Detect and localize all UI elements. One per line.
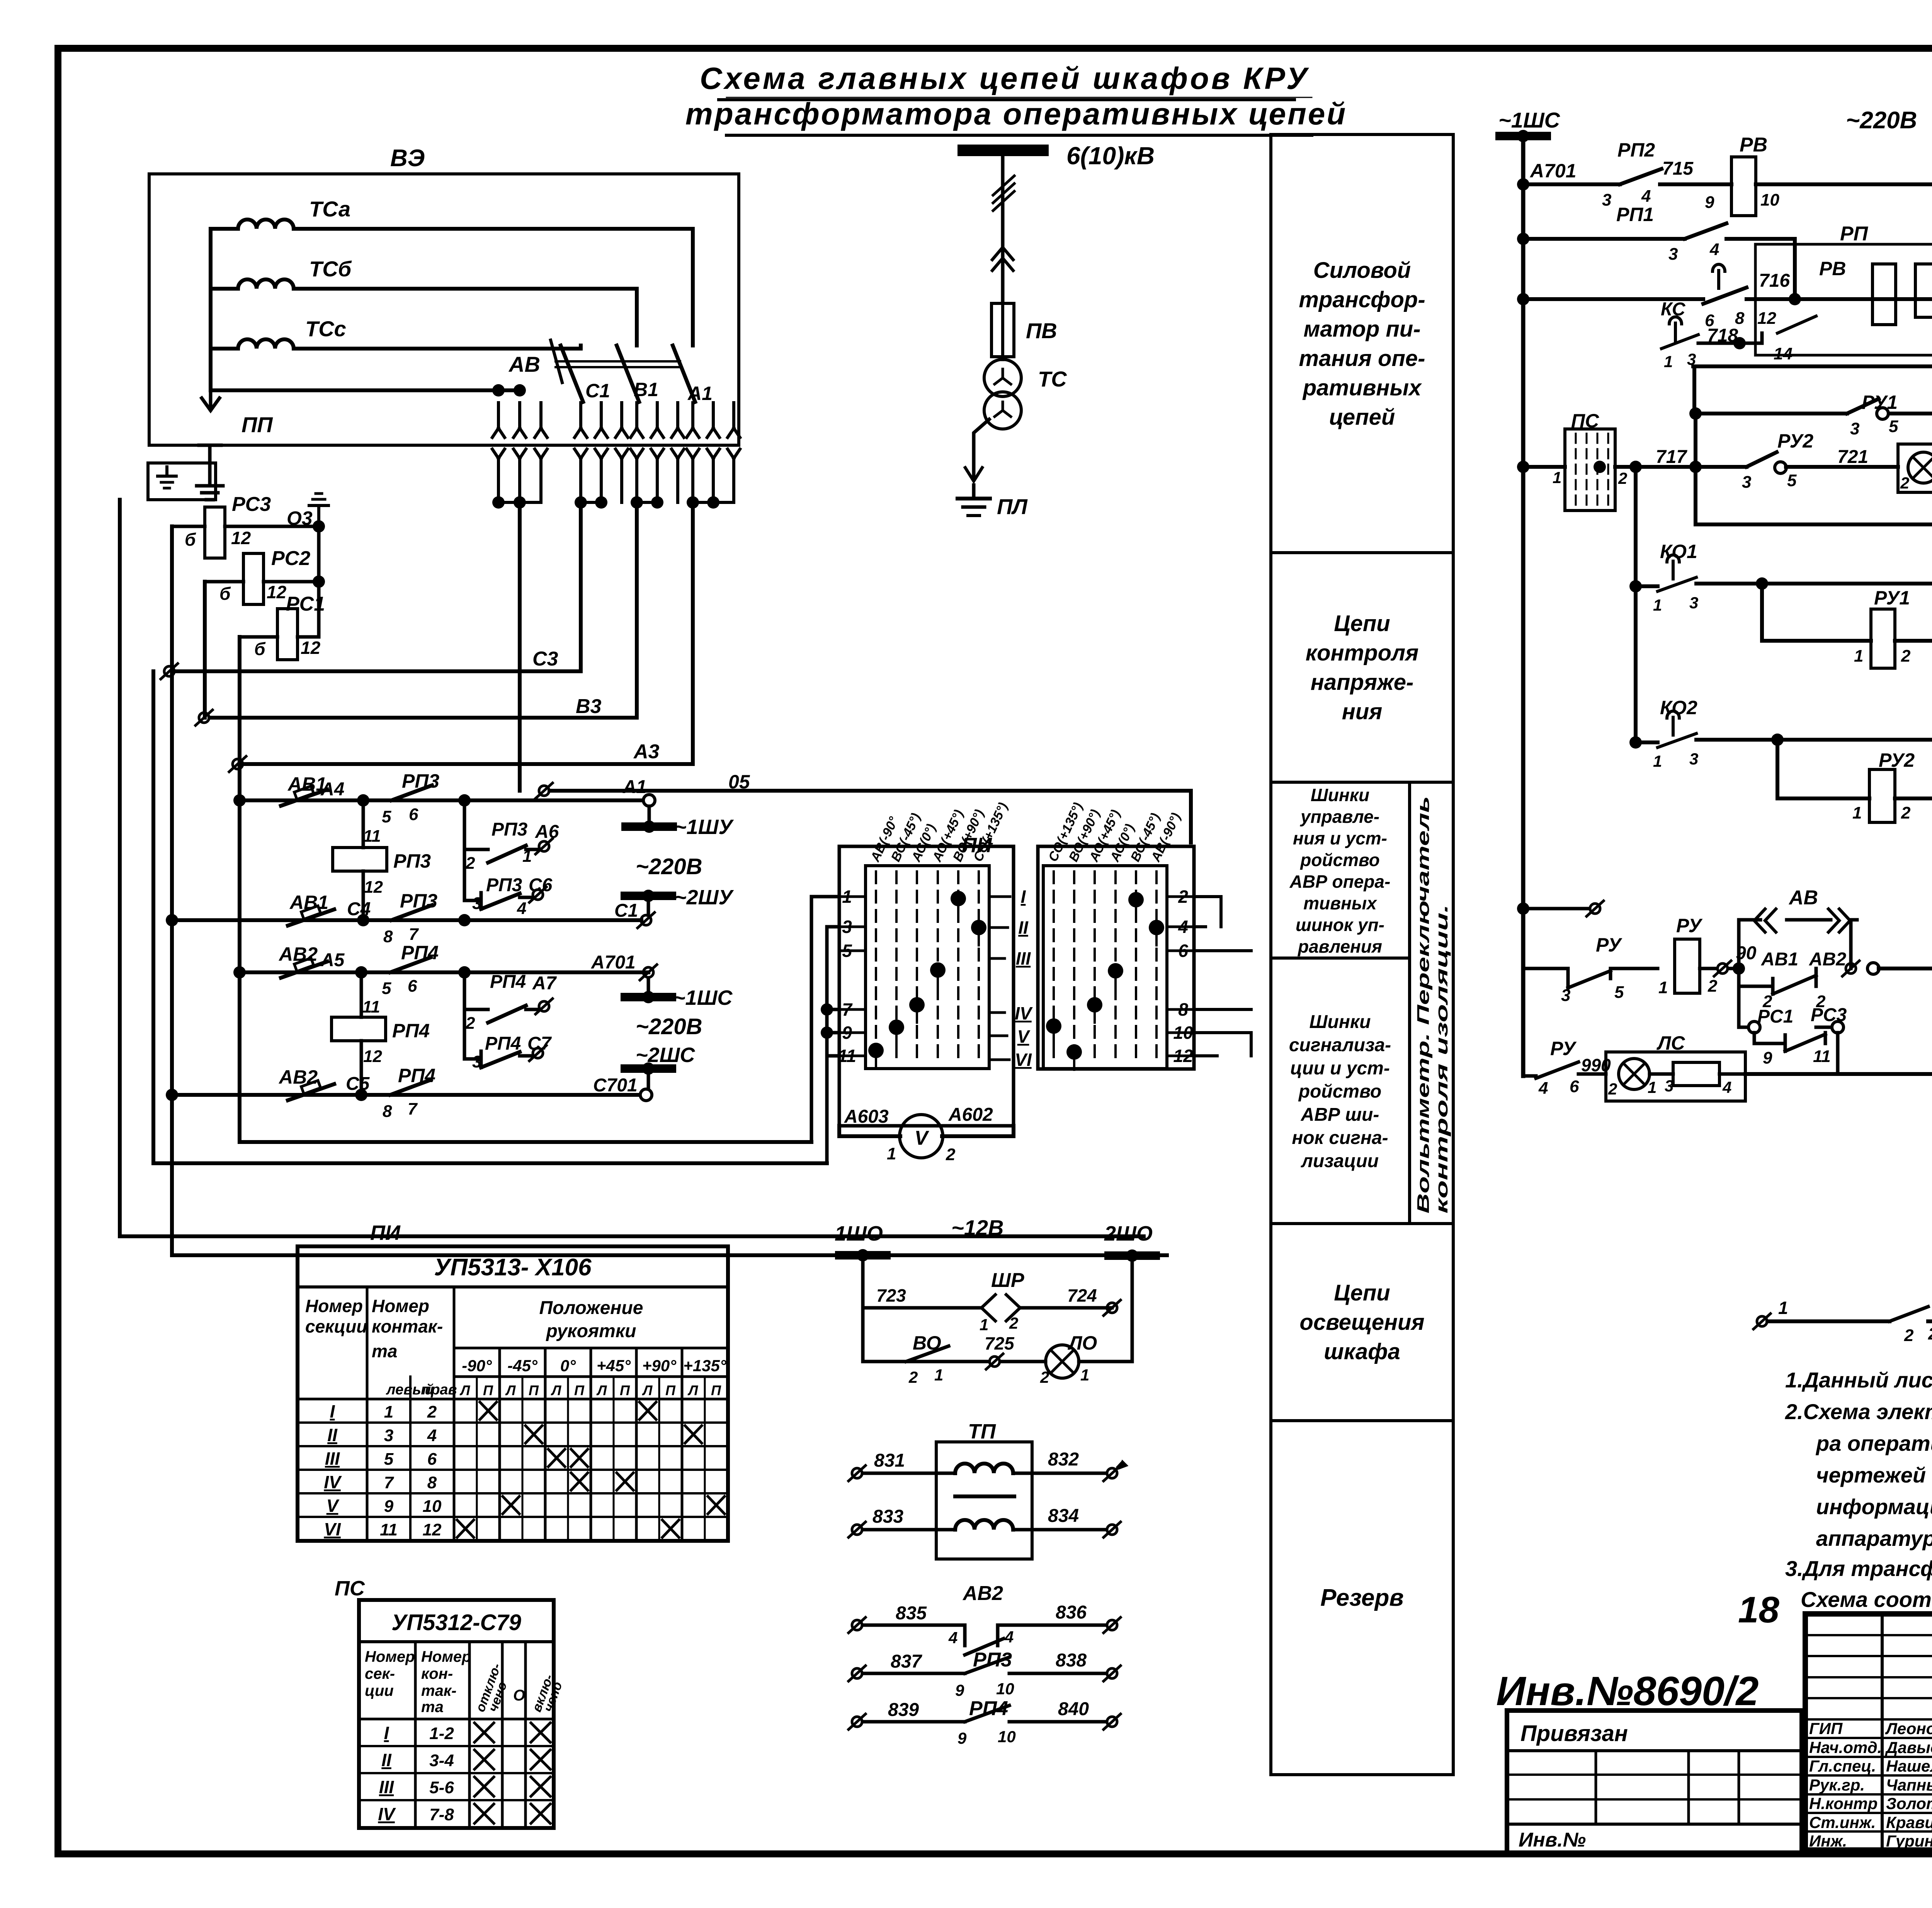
svg-text:Н.контр: Н.контр bbox=[1809, 1794, 1878, 1813]
svg-text:IV: IV bbox=[378, 1804, 396, 1824]
svg-text:Инв.№: Инв.№ bbox=[1519, 1829, 1586, 1851]
svg-text:1: 1 bbox=[1852, 803, 1862, 822]
svg-text:IV: IV bbox=[324, 1472, 342, 1492]
svg-text:Инв.№8690/2: Инв.№8690/2 bbox=[1496, 1668, 1759, 1714]
PI matrix right bbox=[1043, 866, 1167, 1069]
svg-text:Золотарева: Золотарева bbox=[1886, 1794, 1932, 1813]
svg-text:1: 1 bbox=[1648, 1078, 1656, 1096]
svg-text:7-8: 7-8 bbox=[429, 1805, 454, 1824]
node row1 left bbox=[233, 794, 246, 807]
svg-text:П: П bbox=[620, 1382, 630, 1398]
svg-text:Номер: Номер bbox=[305, 1296, 363, 1316]
svg-text:3: 3 bbox=[1602, 191, 1611, 209]
svg-text:1: 1 bbox=[1653, 596, 1662, 614]
svg-text:2: 2 bbox=[1708, 977, 1718, 996]
svg-text:напряже-: напряже- bbox=[1311, 670, 1414, 695]
svg-text:05: 05 bbox=[728, 771, 750, 793]
svg-text:ПЛ: ПЛ bbox=[997, 494, 1028, 519]
svg-text:723: 723 bbox=[876, 1285, 906, 1305]
node row2 mid bbox=[458, 914, 471, 926]
node row2 left bbox=[166, 914, 178, 926]
svg-text:7: 7 bbox=[408, 1100, 418, 1118]
svg-text:РП2: РП2 bbox=[1617, 139, 1655, 161]
svg-text:3: 3 bbox=[1742, 473, 1751, 492]
svg-text:Л: Л bbox=[505, 1382, 516, 1398]
svg-text:сигнализа-: сигнализа- bbox=[1289, 1035, 1391, 1055]
svg-text:4: 4 bbox=[1709, 240, 1719, 259]
svg-text:724: 724 bbox=[1067, 1285, 1097, 1305]
svg-text:7: 7 bbox=[384, 1473, 395, 1492]
svg-text:+45°: +45° bbox=[597, 1357, 631, 1375]
svg-text:ПП: ПП bbox=[241, 412, 273, 437]
svg-text:-45°: -45° bbox=[507, 1357, 538, 1375]
svg-text:8: 8 bbox=[383, 1102, 392, 1121]
svg-text:цепей: цепей bbox=[1329, 405, 1395, 430]
svg-text:12: 12 bbox=[423, 1520, 442, 1539]
contact RU1 + 720 + LS1 row bbox=[1689, 407, 1702, 420]
svg-text:РП: РП bbox=[1840, 223, 1869, 245]
svg-text:П: П bbox=[483, 1382, 493, 1398]
svg-text:А5: А5 bbox=[320, 950, 345, 970]
svg-text:АВ2: АВ2 bbox=[1809, 949, 1846, 970]
coil RP3 bbox=[362, 800, 365, 848]
svg-text:717: 717 bbox=[1656, 447, 1687, 467]
wire left bus vertical bbox=[1521, 140, 1526, 1076]
svg-text:4: 4 bbox=[1004, 1628, 1014, 1646]
svg-text:2: 2 bbox=[1608, 1080, 1617, 1098]
svg-text:С1: С1 bbox=[585, 380, 610, 402]
svg-text:РВ: РВ bbox=[1740, 134, 1767, 156]
svg-text:управле-: управле- bbox=[1300, 807, 1379, 827]
svg-text:РП3: РП3 bbox=[486, 875, 522, 895]
svg-text:II: II bbox=[1018, 917, 1029, 938]
svg-text:Л: Л bbox=[687, 1382, 699, 1398]
svg-text:ративных: ративных bbox=[1302, 375, 1422, 400]
svg-text:1: 1 bbox=[1080, 1366, 1089, 1384]
svg-text:IV: IV bbox=[1015, 1003, 1033, 1023]
svg-text:~1ШС: ~1ШС bbox=[1498, 108, 1561, 132]
svg-text:11: 11 bbox=[363, 827, 381, 846]
svg-text:~220В: ~220В bbox=[636, 854, 702, 879]
svg-text:Нашельский: Нашельский bbox=[1886, 1757, 1932, 1775]
svg-text:С1: С1 bbox=[614, 900, 638, 921]
svg-text:так-: так- bbox=[421, 1682, 456, 1699]
svg-text:б: б bbox=[219, 584, 231, 604]
svg-text:ПВ: ПВ bbox=[1026, 318, 1057, 343]
transformer TC bbox=[984, 359, 1021, 397]
svg-text:контроля: контроля bbox=[1306, 640, 1419, 666]
svg-text:833: 833 bbox=[872, 1506, 903, 1527]
svg-text:Номер: Номер bbox=[421, 1648, 471, 1665]
svg-text:1: 1 bbox=[1854, 647, 1863, 666]
svg-text:АВР опера-: АВР опера- bbox=[1289, 871, 1391, 892]
svg-text:ра оперативных цепей N1 вып: ра оперативных цепей N1 выполнена на осн… bbox=[1815, 1431, 1932, 1455]
svg-text:5-6: 5-6 bbox=[429, 1778, 454, 1797]
svg-text:РУ2: РУ2 bbox=[1879, 749, 1915, 771]
svg-text:чертежей 6ВБ.071. 800. ПЭ3 ,: чертежей 6ВБ.071. 800. ПЭ3 , 6ВБ.071.800… bbox=[1816, 1463, 1932, 1487]
wire B3 bbox=[196, 710, 213, 725]
coil RP4 bbox=[360, 972, 363, 1017]
left vertical feeders bbox=[172, 526, 1167, 1255]
svg-text:А603: А603 bbox=[844, 1106, 889, 1127]
ground box bbox=[148, 463, 216, 500]
junction nodes neutral bbox=[492, 384, 505, 397]
svg-text:РП3: РП3 bbox=[393, 850, 431, 872]
svg-text:РУ2: РУ2 bbox=[1777, 430, 1813, 452]
svg-text:4: 4 bbox=[1722, 1078, 1731, 1096]
svg-text:3: 3 bbox=[1689, 594, 1698, 612]
svg-text:836: 836 bbox=[1056, 1602, 1087, 1623]
svg-text:А701: А701 bbox=[591, 952, 636, 973]
svg-text:4: 4 bbox=[427, 1426, 437, 1445]
table PI bbox=[298, 1246, 728, 1541]
svg-text:5: 5 bbox=[382, 979, 391, 998]
node row1 mid bbox=[458, 794, 471, 807]
wire drop 1 bbox=[518, 502, 522, 791]
svg-text:РУ: РУ bbox=[1550, 1038, 1577, 1059]
legend box voltage control bbox=[1271, 553, 1453, 782]
svg-text:5: 5 bbox=[382, 807, 391, 826]
legend box reserve bbox=[1271, 1421, 1453, 1775]
svg-text:рукоятки: рукоятки bbox=[545, 1321, 636, 1341]
wire KO bus vertical bbox=[1634, 467, 1638, 742]
socket contacts lower row bbox=[492, 449, 505, 502]
enclosure VE box bbox=[149, 174, 739, 445]
svg-text:РП3: РП3 bbox=[492, 819, 528, 840]
svg-text:~2ШУ: ~2ШУ bbox=[674, 886, 734, 909]
busbar 2ShS left2 bbox=[647, 1073, 650, 1089]
svg-text:5: 5 bbox=[1889, 417, 1898, 436]
svg-text:трансформатора оперативных ц: трансформатора оперативных цепей bbox=[685, 97, 1347, 131]
svg-text:839: 839 bbox=[888, 1700, 919, 1720]
svg-text:835: 835 bbox=[896, 1603, 927, 1624]
svg-text:1: 1 bbox=[934, 1366, 943, 1384]
svg-text:3: 3 bbox=[1665, 1077, 1673, 1095]
svg-text:освещения: освещения bbox=[1299, 1310, 1424, 1335]
contact RP1 row bbox=[1517, 233, 1529, 245]
arrow PP bbox=[202, 390, 219, 410]
svg-text:АВ1: АВ1 bbox=[1761, 949, 1798, 970]
svg-text:4: 4 bbox=[517, 899, 526, 918]
svg-text:Цепи: Цепи bbox=[1334, 611, 1390, 636]
svg-text:14: 14 bbox=[1774, 344, 1793, 363]
svg-text:1: 1 bbox=[1553, 468, 1561, 487]
wire row3 bbox=[240, 970, 648, 974]
svg-text:~1ШУ: ~1ШУ bbox=[674, 815, 734, 839]
svg-text:Гурина: Гурина bbox=[1886, 1832, 1932, 1850]
svg-text:кон-: кон- bbox=[421, 1665, 453, 1682]
svg-text:18: 18 bbox=[1738, 1589, 1779, 1631]
svg-text:АВР ши-: АВР ши- bbox=[1301, 1105, 1379, 1125]
svg-text:12: 12 bbox=[1757, 309, 1776, 328]
svg-text:2: 2 bbox=[1901, 803, 1911, 822]
svg-text:Леонов: Леонов bbox=[1885, 1719, 1932, 1738]
svg-text:II: II bbox=[327, 1425, 338, 1445]
coil RU2 row bbox=[1771, 734, 1784, 746]
svg-text:12: 12 bbox=[231, 528, 251, 548]
contact VD + 200 row bbox=[1753, 1314, 1770, 1329]
svg-text:2: 2 bbox=[1901, 647, 1911, 666]
svg-text:10: 10 bbox=[998, 1728, 1016, 1746]
svg-text:2: 2 bbox=[1928, 1324, 1932, 1343]
svg-text:725: 725 bbox=[985, 1333, 1015, 1353]
svg-text:1: 1 bbox=[1653, 752, 1662, 770]
voltmeter loop bbox=[839, 1126, 1014, 1136]
svg-text:837: 837 bbox=[891, 1651, 922, 1672]
svg-text:838: 838 bbox=[1056, 1650, 1087, 1671]
svg-text:+135°: +135° bbox=[683, 1357, 727, 1375]
svg-text:Номер: Номер bbox=[372, 1296, 429, 1316]
svg-text:10: 10 bbox=[996, 1680, 1014, 1698]
svg-text:В1: В1 bbox=[634, 379, 658, 400]
svg-text:4: 4 bbox=[948, 1629, 957, 1647]
svg-text:~1ШС: ~1ШС bbox=[673, 986, 733, 1009]
LS3 row bbox=[1694, 366, 1932, 524]
svg-text:832: 832 bbox=[1048, 1449, 1079, 1470]
svg-text:3: 3 bbox=[384, 1426, 393, 1445]
svg-text:12: 12 bbox=[363, 1047, 382, 1066]
svg-text:V: V bbox=[327, 1496, 340, 1516]
svg-text:3-4: 3-4 bbox=[429, 1751, 454, 1770]
svg-text:834: 834 bbox=[1048, 1506, 1079, 1526]
svg-text:12: 12 bbox=[267, 582, 287, 602]
title block bbox=[1805, 1614, 1932, 1850]
svg-text:III: III bbox=[325, 1448, 340, 1469]
svg-text:П: П bbox=[711, 1382, 721, 1398]
svg-text:2: 2 bbox=[1009, 1314, 1018, 1332]
svg-text:3: 3 bbox=[1850, 419, 1859, 438]
svg-text:та: та bbox=[372, 1341, 397, 1361]
svg-text:5: 5 bbox=[1787, 471, 1797, 490]
legend box control buses bbox=[1271, 782, 1410, 958]
node row4 left bbox=[166, 1089, 178, 1101]
junction nodes below bbox=[492, 496, 505, 509]
svg-text:~220В: ~220В bbox=[636, 1014, 702, 1039]
svg-text:2: 2 bbox=[465, 1014, 475, 1033]
relay RV coil bbox=[1731, 157, 1756, 216]
svg-text:А1: А1 bbox=[622, 777, 646, 797]
wire lamp loop bbox=[863, 1260, 1132, 1362]
svg-text:5: 5 bbox=[1614, 983, 1624, 1002]
svg-text:Схема главных цепей шкафов: Схема главных цепей шкафов КРУ bbox=[700, 61, 1310, 95]
svg-text:1.Данный лист расстатривать: 1.Данный лист расстатривать с листами ЭС… bbox=[1785, 1368, 1932, 1392]
svg-text:ния и уст-: ния и уст- bbox=[1293, 828, 1387, 848]
svg-text:нок сигна-: нок сигна- bbox=[1292, 1128, 1388, 1148]
svg-text:РС3: РС3 bbox=[232, 493, 271, 516]
wire HV drop bbox=[1001, 156, 1005, 359]
svg-text:3: 3 bbox=[472, 1052, 481, 1071]
wire row4 bbox=[172, 1093, 641, 1097]
svg-text:716: 716 bbox=[1759, 271, 1790, 291]
svg-text:3: 3 bbox=[1561, 986, 1570, 1005]
wire row1 bbox=[240, 798, 649, 802]
svg-text:П: П bbox=[529, 1382, 539, 1398]
svg-text:1ШО: 1ШО bbox=[835, 1222, 883, 1245]
breaker AB blades bbox=[561, 346, 583, 402]
svg-text:3: 3 bbox=[1689, 750, 1698, 768]
svg-text:б: б bbox=[254, 639, 266, 659]
svg-text:1: 1 bbox=[1664, 352, 1673, 371]
svg-text:721: 721 bbox=[1837, 447, 1868, 467]
svg-text:III: III bbox=[1016, 948, 1031, 968]
svg-text:8: 8 bbox=[427, 1473, 437, 1492]
svg-text:9: 9 bbox=[1763, 1048, 1772, 1067]
svg-text:1: 1 bbox=[1658, 978, 1668, 997]
svg-text:ТСа: ТСа bbox=[309, 197, 350, 221]
svg-text:ПИ: ПИ bbox=[370, 1221, 401, 1244]
svg-text:6: 6 bbox=[409, 805, 418, 824]
svg-text:I: I bbox=[1021, 887, 1026, 907]
svg-text:АВ2: АВ2 bbox=[962, 1582, 1003, 1605]
wire A3 bbox=[229, 756, 246, 772]
svg-text:контак-: контак- bbox=[372, 1316, 443, 1336]
PI right pin steps bbox=[1194, 897, 1251, 1056]
wire drop 4 (A3) bbox=[691, 502, 695, 764]
legend box cabinet lighting bbox=[1271, 1224, 1453, 1421]
PI matrix left bbox=[866, 866, 989, 1069]
svg-text:3.Для трансформатора операти: 3.Для трансформатора оперативных цепей N… bbox=[1785, 1556, 1932, 1581]
svg-text:715: 715 bbox=[1662, 158, 1694, 179]
svg-text:РП1: РП1 bbox=[1616, 204, 1654, 225]
busbar 2ShU bbox=[647, 900, 650, 915]
svg-text:6: 6 bbox=[427, 1450, 437, 1469]
svg-text:матор пи-: матор пи- bbox=[1303, 317, 1420, 342]
svg-text:ции: ции bbox=[365, 1682, 394, 1699]
svg-text:О3: О3 bbox=[287, 507, 313, 529]
svg-text:УП5313- Х106: УП5313- Х106 bbox=[434, 1254, 592, 1281]
svg-text:лизации: лизации bbox=[1301, 1151, 1379, 1171]
svg-text:V: V bbox=[1017, 1026, 1031, 1047]
svg-text:10: 10 bbox=[1760, 191, 1779, 209]
svg-text:Ст.инж.: Ст.инж. bbox=[1809, 1813, 1876, 1831]
svg-text:2: 2 bbox=[908, 1368, 918, 1386]
svg-text:-90°: -90° bbox=[462, 1357, 492, 1375]
svg-text:РУ1: РУ1 bbox=[1874, 587, 1910, 609]
svg-text:трансфор-: трансфор- bbox=[1299, 287, 1425, 312]
svg-text:АВ2: АВ2 bbox=[278, 1066, 318, 1088]
svg-text:Л: Л bbox=[459, 1382, 471, 1398]
svg-text:Шинки: Шинки bbox=[1310, 1012, 1371, 1032]
svg-text:6: 6 bbox=[1570, 1077, 1579, 1096]
svg-text:11: 11 bbox=[380, 1520, 398, 1539]
svg-text:Гл.спец.: Гл.спец. bbox=[1809, 1757, 1876, 1775]
svg-text:0°: 0° bbox=[560, 1357, 576, 1375]
svg-text:+90°: +90° bbox=[642, 1357, 677, 1375]
svg-text:6: 6 bbox=[408, 977, 417, 996]
svg-text:РС1: РС1 bbox=[1757, 1006, 1793, 1027]
ground PL bbox=[972, 485, 976, 499]
svg-text:ТСб: ТСб bbox=[309, 257, 352, 281]
svg-text:718: 718 bbox=[1707, 325, 1738, 346]
svg-text:II: II bbox=[381, 1750, 392, 1770]
svg-text:А602: А602 bbox=[948, 1105, 993, 1125]
svg-text:РП4: РП4 bbox=[485, 1033, 521, 1054]
svg-text:О: О bbox=[513, 1687, 525, 1704]
svg-text:840: 840 bbox=[1058, 1699, 1089, 1719]
svg-text:Нач.отд.: Нач.отд. bbox=[1809, 1738, 1882, 1757]
svg-text:контроля изоляции.: контроля изоляции. bbox=[1432, 904, 1451, 1214]
svg-text:Схема соответствует чертежам: Схема соответствует чертежам 6ВБ.071.801… bbox=[1801, 1587, 1932, 1612]
contact RV aux + 716 row bbox=[1517, 293, 1529, 305]
svg-text:11: 11 bbox=[362, 997, 380, 1016]
ground symbol left bbox=[208, 446, 212, 485]
svg-text:УП5312-С79: УП5312-С79 bbox=[391, 1610, 521, 1635]
svg-text:А701: А701 bbox=[1529, 160, 1577, 182]
legend box power transformer bbox=[1271, 134, 1453, 553]
svg-text:та: та bbox=[421, 1699, 444, 1716]
svg-text:П: П bbox=[665, 1382, 676, 1398]
busbar 1ShS left bbox=[647, 978, 650, 992]
svg-text:Чапны: Чапны bbox=[1886, 1776, 1932, 1794]
svg-text:Инж.: Инж. bbox=[1809, 1832, 1847, 1850]
svg-text:5: 5 bbox=[384, 1450, 394, 1469]
svg-text:Положение: Положение bbox=[539, 1298, 643, 1318]
svg-text:аппаратуры г. 3апорожье.: аппаратуры г. 3апорожье. bbox=[1816, 1526, 1932, 1551]
wire 717 row bbox=[1523, 465, 1747, 469]
wire 831-832 bbox=[849, 1465, 866, 1481]
svg-text:9: 9 bbox=[957, 1729, 967, 1747]
svg-text:2: 2 bbox=[1040, 1368, 1049, 1386]
relay RP box bbox=[1755, 244, 1932, 355]
svg-text:12: 12 bbox=[301, 638, 321, 658]
fuse PV bbox=[992, 303, 1014, 357]
svg-text:РУ: РУ bbox=[1596, 934, 1622, 956]
svg-text:ройство: ройство bbox=[1299, 850, 1380, 870]
switch block PI outer left bbox=[839, 846, 1014, 1126]
svg-text:ния: ния bbox=[1342, 699, 1383, 724]
tie-in box bbox=[1507, 1711, 1802, 1854]
wire 05 bbox=[536, 783, 553, 798]
switch block PI outer right bbox=[1038, 846, 1194, 1069]
svg-text:6(10)кВ: 6(10)кВ bbox=[1066, 142, 1155, 170]
wire phase c bbox=[211, 346, 581, 349]
svg-text:РС2: РС2 bbox=[271, 547, 310, 570]
svg-text:2: 2 bbox=[946, 1145, 956, 1164]
svg-text:ПС: ПС bbox=[335, 1577, 365, 1600]
svg-text:С3: С3 bbox=[532, 648, 558, 670]
PI left matrix dots bbox=[971, 920, 986, 935]
svg-text:1: 1 bbox=[384, 1402, 393, 1421]
svg-text:РП4: РП4 bbox=[490, 972, 526, 992]
svg-text:2: 2 bbox=[465, 854, 475, 873]
wire RS3 row bbox=[172, 525, 319, 528]
svg-text:2: 2 bbox=[1618, 469, 1627, 487]
svg-text:АВ: АВ bbox=[508, 352, 540, 376]
svg-text:Силовой: Силовой bbox=[1313, 258, 1411, 283]
svg-text:Вольтметр. Переключатель: Вольтметр. Переключатель bbox=[1414, 796, 1433, 1214]
svg-text:10: 10 bbox=[423, 1497, 442, 1516]
svg-text:С701: С701 bbox=[593, 1075, 638, 1096]
wire D703 row bbox=[1745, 1072, 1932, 1076]
svg-text:А3: А3 bbox=[633, 740, 660, 763]
svg-text:сек-: сек- bbox=[365, 1665, 395, 1682]
svg-text:1: 1 bbox=[522, 847, 532, 866]
svg-text:ШР: ШР bbox=[991, 1269, 1024, 1292]
svg-text:АВ: АВ bbox=[1788, 887, 1818, 909]
svg-text:2ШО: 2ШО bbox=[1104, 1222, 1153, 1245]
svg-text:1: 1 bbox=[980, 1316, 988, 1334]
svg-text:9: 9 bbox=[955, 1681, 964, 1699]
legend strip voltmeter bbox=[1410, 782, 1453, 1224]
svg-text:4: 4 bbox=[1538, 1079, 1548, 1098]
svg-text:~2ШС: ~2ШС bbox=[636, 1043, 695, 1067]
legend box signal buses bbox=[1271, 958, 1410, 1224]
svg-text:I: I bbox=[330, 1401, 335, 1421]
svg-text:VI: VI bbox=[324, 1519, 341, 1539]
svg-text:III: III bbox=[379, 1777, 395, 1797]
table PS bbox=[359, 1600, 554, 1828]
voltmeter V bbox=[900, 1115, 943, 1158]
